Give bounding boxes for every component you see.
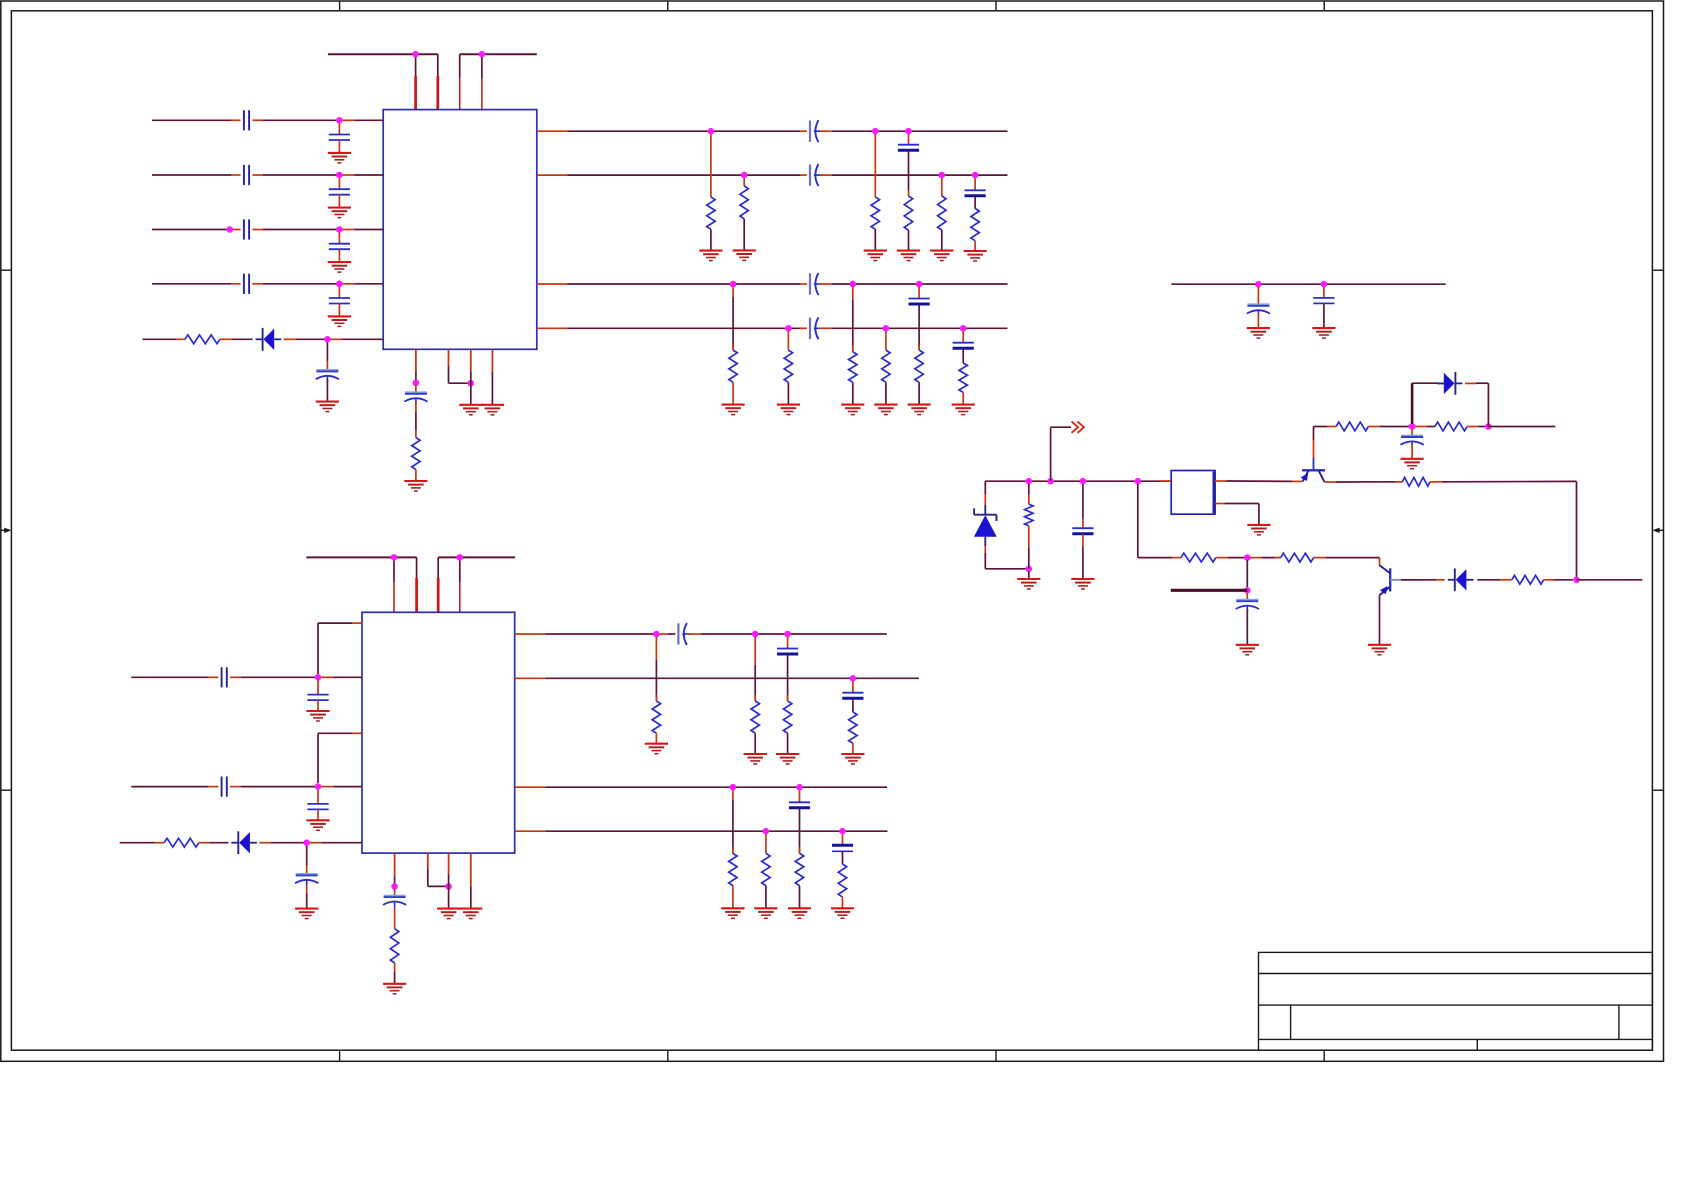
wire rail riser 3: [459, 54, 461, 109]
capacitor C2 (series, row 2): [244, 165, 249, 185]
border centre arrow right: [1652, 528, 1663, 533]
wire U2 feedback L2: [318, 733, 362, 783]
ground chain G: [722, 405, 745, 415]
wire feedback vertical: [1576, 481, 1578, 579]
wire chain Md stub: [852, 681, 854, 692]
wire shunt stub row 3: [338, 233, 340, 244]
junction node F on L2: [972, 172, 979, 179]
junction node C on L1: [872, 128, 879, 135]
ground U2 pin4: [459, 909, 482, 919]
wire chain F to ground: [974, 241, 976, 251]
wire chain J stub: [885, 331, 887, 350]
resistor R27: [1281, 553, 1314, 562]
wire U2 row C left segment: [120, 842, 164, 844]
wire U2 feedback L1: [318, 623, 362, 674]
wire chain K mid: [918, 305, 920, 350]
wire chain B to ground: [743, 219, 745, 251]
ground chain Md: [841, 754, 864, 764]
ground U2 pin3: [437, 909, 460, 919]
ground chain K: [908, 405, 931, 415]
ground C34: [1401, 459, 1424, 469]
junction node dec1: [1255, 281, 1262, 288]
wire chain P2 stub: [765, 834, 767, 853]
capacitor C12 (series on L2): [810, 164, 822, 186]
junction node row 4: [336, 281, 343, 288]
capacitor C21 (shunt, row A): [307, 695, 328, 701]
junction rail2 dot B: [457, 554, 464, 561]
wire R2 to ground: [415, 470, 417, 482]
wire C10 to R2: [415, 402, 417, 438]
capacitor C19 (series, row A): [222, 667, 227, 687]
wire chain F mid: [974, 196, 976, 208]
junction node Mb on M1: [752, 631, 759, 638]
resistor R31: [1512, 575, 1544, 584]
capacitor C18 (chain L): [953, 343, 974, 349]
wire shunt stub row B: [317, 790, 319, 804]
capacitor C24 (polarized): [383, 896, 406, 908]
wire rail2 riser 3: [437, 557, 439, 612]
junction node E on L2: [939, 172, 946, 179]
capacitor C3 (series, row 3): [244, 219, 249, 239]
wire chain L stub: [962, 331, 964, 342]
junction node P1 on M3: [730, 784, 737, 791]
wire chain Ma to ground: [655, 733, 657, 744]
wire net OUT3 (L3): [537, 283, 807, 285]
junction node G on L3: [730, 281, 737, 288]
wire U2 bottom pin 2 jog: [428, 853, 449, 886]
wire U2 row B right segment: [230, 786, 362, 788]
ground chain I: [841, 405, 864, 415]
wire chain D to ground: [908, 230, 910, 250]
wire net OUT3 right part: [820, 283, 1008, 285]
ground U1 pin3: [459, 405, 482, 415]
wire net OUT1 right part: [820, 130, 1008, 132]
wire C23 to ground: [306, 886, 308, 909]
ground row C: [295, 909, 318, 919]
wire chain Md to ground: [852, 743, 854, 754]
diode D1: [256, 328, 282, 351]
junction node I on L3: [850, 281, 857, 288]
wire dec1 to ground: [1257, 314, 1259, 329]
ground chain Ma: [645, 744, 668, 754]
wire D4 to Q2 base: [1401, 579, 1445, 581]
wire net OUT4 (L4): [537, 327, 807, 329]
ground U2 row B: [306, 820, 329, 830]
wire chain P3 mid: [799, 808, 801, 853]
wire row5 cap stub: [326, 342, 328, 370]
offpage connector chevron: [1072, 422, 1085, 433]
capacitor C16 (chain F): [965, 190, 986, 196]
wire Q2 emitter down: [1379, 595, 1381, 645]
ground row 3: [328, 262, 351, 272]
wire chain Mc stub: [787, 637, 789, 649]
wire U1 input row 3 right segment: [252, 229, 383, 231]
wire node to R27: [1250, 557, 1281, 559]
wire lower2 to C33: [1246, 593, 1248, 600]
junction node T1: [1409, 423, 1416, 430]
wire chevron branch: [1051, 427, 1071, 481]
wire chain A crossing: [710, 134, 712, 197]
wire U2 bottom pin 4: [470, 853, 472, 909]
capacitor C14 (series on L4): [810, 317, 822, 339]
wire chain B stub: [743, 178, 745, 186]
wire U1 input row 2 right segment: [252, 174, 383, 176]
wire chain C stub: [874, 134, 876, 197]
wire U3 output: [1215, 480, 1303, 482]
wire U1 bottom pin 1: [415, 349, 417, 383]
capacitor C27 (chain Md): [842, 693, 863, 699]
wire T1 riser thick: [1411, 383, 1414, 424]
wire C9 to ground: [326, 379, 328, 401]
diode D2: [231, 831, 257, 854]
resistor R15 (row C): [164, 838, 199, 847]
wire U1 bottom pin 2 jog: [449, 349, 471, 383]
junction node bus chevron: [1047, 478, 1054, 485]
junction node U2 row B: [315, 783, 322, 790]
resistor R18 (chain Mb): [751, 701, 759, 733]
junction node H on L4: [785, 325, 792, 332]
wire chain H to ground: [787, 382, 789, 404]
wire dec1 stub: [1257, 287, 1259, 304]
resistor R22 (chain P2): [762, 853, 770, 885]
wire rail riser 1: [415, 54, 417, 109]
junction node U2 bottom: [445, 883, 452, 890]
capacitor C5 (shunt, row 1): [329, 135, 350, 141]
wire R28 to corner: [1430, 480, 1576, 482]
ground chain F: [964, 251, 987, 261]
junction node row 5: [324, 336, 331, 343]
IC U2: [362, 612, 515, 853]
wire R26 to node: [1216, 557, 1247, 559]
wire chain P3 stub: [799, 790, 801, 802]
capacitor C4 (series, row 4): [244, 274, 249, 294]
wire net OUT2 (L2): [537, 174, 807, 176]
capacitor C15 (chain D): [898, 145, 919, 151]
capacitor C8 (shunt, row 4): [329, 298, 350, 304]
wire loop right: [1465, 383, 1488, 426]
wire to ground row 3: [338, 249, 340, 262]
ground chain H: [777, 405, 800, 415]
wire lower1 down: [1246, 560, 1248, 590]
junction node U2 row A: [315, 674, 322, 681]
wire U1 input row 4 left segment: [152, 283, 241, 285]
power rail net VCC2 left piece: [306, 556, 416, 558]
ground dec2: [1312, 328, 1335, 338]
wire net BOUT2 (M2): [515, 677, 919, 679]
junction rail dot B: [479, 51, 486, 58]
wire row A to ground: [317, 700, 319, 711]
resistor R26 (lower): [1181, 553, 1216, 562]
wire chain P4 stub: [842, 834, 844, 845]
wire R25 stub: [1028, 484, 1030, 504]
wire FB left to R31: [1544, 579, 1573, 581]
capacitor C26 (chain Mc): [777, 649, 798, 655]
junction node T2: [1485, 423, 1492, 430]
wire net OUT4 right part: [820, 327, 1008, 329]
ground chain P2: [754, 908, 777, 918]
ground chain D: [897, 251, 920, 261]
wire shunt stub row 2: [338, 178, 340, 189]
resistor R24 (chain P4): [838, 864, 846, 897]
wire chain D mid: [908, 151, 910, 196]
wire to ground row 4: [338, 304, 340, 317]
wire U1 bottom pin 3: [470, 349, 472, 405]
junction node dec2: [1321, 281, 1328, 288]
resistor R30: [1435, 422, 1467, 431]
junction rail dot A: [412, 51, 419, 58]
junction node B on L2: [741, 172, 748, 179]
capacitor C22 (shunt, row B): [307, 804, 328, 810]
wire R30 to node T2: [1467, 426, 1488, 428]
capacitor C17 (chain K): [909, 299, 930, 305]
junction node Ma on M1: [653, 631, 660, 638]
resistor R23 (chain P3): [795, 853, 803, 885]
junction node lower2: [1244, 587, 1251, 594]
ground U1 bottom chain: [404, 481, 427, 491]
wire chain P4 mid: [842, 851, 844, 864]
diode D3: [1437, 372, 1463, 395]
wire chain Mb to ground: [754, 733, 756, 754]
junction node K on L3: [916, 281, 923, 288]
wire zener anode down: [985, 546, 1029, 569]
wire chain I to ground: [852, 382, 854, 404]
ground chain B: [733, 250, 756, 260]
ground chain P1: [721, 908, 744, 918]
wire U2 row A right segment: [230, 676, 362, 678]
junction node FB: [1573, 577, 1580, 584]
wire rail2 riser 4: [459, 557, 461, 612]
wire U2 row A left segment: [131, 676, 218, 678]
IC U1: [383, 110, 537, 350]
wire chain A to ground: [710, 229, 712, 250]
wire U1 input row 1 right segment: [252, 119, 383, 121]
wire dec2 to ground: [1323, 304, 1325, 328]
wire net VDD decoupling: [1171, 283, 1445, 285]
wire shunt stub row 1: [338, 123, 340, 134]
junction node bus reg: [1135, 478, 1142, 485]
wire thick stub net: [1171, 589, 1248, 592]
resistor R11 (chain I): [849, 352, 857, 382]
wire chain Mb stub: [754, 637, 756, 701]
wire U1 input row 4 right segment: [252, 283, 383, 285]
wire rail riser 2: [437, 54, 439, 109]
wire U1 input row 3 left segment: [152, 229, 241, 231]
ground chain E: [930, 251, 953, 261]
wire net BOUT4 (M4): [515, 830, 888, 832]
wire to ground row 1: [338, 140, 340, 153]
ground U1 pin4: [481, 405, 504, 415]
wire C32 to ground: [1082, 534, 1084, 579]
wire chain Mc mid: [787, 655, 789, 701]
ground chain L: [952, 405, 975, 415]
voltage regulator U3: [1171, 471, 1215, 515]
wire chain Md mid: [852, 699, 854, 712]
wire D2 to U2: [259, 842, 362, 844]
ground row 4: [328, 316, 351, 326]
junction node Md on M2: [850, 675, 857, 682]
wire chain D stub: [908, 134, 910, 145]
wire chain P4 to ground: [842, 897, 844, 908]
wire R29 to node T1: [1368, 426, 1412, 428]
junction node row 1: [336, 117, 343, 124]
resistor R19 (chain Mc): [783, 701, 791, 733]
wire net OUT2 right part: [820, 174, 1008, 176]
transistor Q1: [1301, 458, 1325, 482]
junction node P2 on M4: [763, 828, 770, 835]
ground chain P4: [831, 908, 854, 918]
wire net BOUT1 right part: [688, 633, 887, 635]
resistor R6 (chain D): [904, 196, 912, 230]
capacitor C13 (series on L3): [810, 273, 822, 295]
ground U3: [1247, 525, 1270, 535]
wire T1 to R30: [1415, 426, 1435, 428]
junction node U1 pin1: [413, 380, 420, 387]
wire U1 input row 2 left segment: [152, 174, 241, 176]
resistor R16 (vertical): [390, 929, 398, 963]
resistor R17 (chain Ma): [652, 701, 660, 733]
wire chain H stub: [787, 331, 789, 350]
wire chain G stub: [732, 287, 734, 350]
ground chain Mc: [776, 754, 799, 764]
wire chain L to ground: [962, 392, 964, 404]
wire shunt stub row A: [317, 680, 319, 694]
diode D4: [1448, 568, 1474, 591]
wire base line (y=426.5): [1314, 426, 1337, 428]
resistor R25: [1025, 504, 1033, 526]
wire chain I stub: [852, 287, 854, 352]
power rail net VCC2 right piece: [438, 556, 515, 558]
wire R31 to D4: [1477, 579, 1512, 581]
capacitor C31: [1313, 298, 1334, 304]
ground Q2: [1368, 645, 1391, 655]
wire chain P3 to ground: [799, 886, 801, 909]
junction node J on L4: [883, 325, 890, 332]
junction node D on L1: [905, 128, 912, 135]
wire to C10: [415, 385, 417, 392]
wire D1 to U1: [284, 338, 384, 340]
wire Q1 collector right: [1325, 481, 1403, 483]
junction node U2 pin1: [391, 883, 398, 890]
junction node U2 row C: [303, 839, 310, 846]
ground chain Mb: [744, 754, 767, 764]
wire FB right stub: [1577, 579, 1643, 581]
wire chain E to ground: [941, 230, 943, 251]
resistor R7 (chain E): [938, 196, 946, 230]
wire chain J to ground: [885, 382, 887, 404]
wire T2 stub right: [1488, 426, 1555, 428]
transistor Q2: [1380, 565, 1401, 595]
wire Q1 base up: [1313, 427, 1315, 459]
wire row B to ground: [317, 809, 319, 820]
capacitor C32: [1072, 528, 1093, 534]
junction node bus R25: [1026, 478, 1033, 485]
border centre arrow left: [1, 528, 12, 533]
ground chain C: [864, 251, 887, 261]
junction node P4 on M4: [839, 828, 846, 835]
zener diode DZ1: [974, 508, 997, 546]
junction node U1 bottom: [468, 380, 475, 387]
wire C24 to R16: [394, 908, 396, 929]
junction node lower1: [1244, 554, 1251, 561]
wire T1 cap stub: [1411, 429, 1413, 435]
junction node L on L4: [960, 325, 967, 332]
ground chain P3: [788, 908, 811, 918]
resistor R20 (chain Md): [849, 712, 857, 743]
capacitor C1 (series, row 1): [244, 110, 249, 130]
wire chain G to ground: [732, 382, 734, 404]
wire net BOUT3 (M3): [515, 786, 887, 788]
wire rail2 riser 1: [393, 557, 395, 612]
wire chain P1 stub: [732, 790, 734, 853]
wire chain Ma stub: [655, 637, 657, 701]
wire to C24: [394, 889, 396, 896]
resistor R28: [1402, 477, 1430, 486]
wire net OUT1 (L1): [537, 130, 807, 132]
capacitor C28 (chain P3): [789, 802, 810, 808]
wire U3 ground pin: [1215, 504, 1259, 525]
resistor R10 (chain H): [784, 350, 792, 382]
capacitor C20 (series, row B): [222, 777, 227, 797]
wire U3 input stub: [1159, 480, 1171, 482]
wire R25 down: [1028, 526, 1030, 569]
capacitor C23 (polarized, row C): [295, 874, 318, 886]
wire R15 to D2: [199, 842, 228, 844]
resistor R2 (vertical): [412, 438, 420, 470]
resistor R13 (chain K): [915, 350, 923, 382]
wire row C cap stub: [306, 846, 308, 874]
junction node row 3 stub dot: [227, 226, 234, 233]
ground U2 row A: [306, 711, 329, 721]
ground chain A: [699, 251, 722, 261]
resistor R12 (chain J): [882, 350, 890, 382]
ground U2 bottom chain: [383, 984, 406, 994]
resistor R4 (chain B): [740, 186, 748, 219]
ground dec1: [1247, 328, 1270, 338]
wire C32 stub: [1082, 484, 1084, 528]
power rail net VCC1 right piece: [460, 53, 537, 55]
wire U1 bottom pin 4: [491, 349, 493, 405]
resistor R3 (chain A): [707, 197, 715, 229]
wire row 5 left segment: [143, 338, 185, 340]
wire C33 to ground: [1246, 609, 1248, 645]
wire rail2 riser 2: [416, 557, 418, 612]
wire chain L mid: [962, 349, 964, 363]
capacitor C11 (series on L1): [810, 120, 822, 142]
resistor R21 (chain P1): [729, 853, 737, 885]
wire chain E stub: [941, 178, 943, 196]
resistor R1 (row 5): [185, 335, 220, 344]
capacitor C29 (chain P4): [832, 845, 853, 851]
wire to ground row 2: [338, 195, 340, 208]
ground row 5: [316, 402, 339, 412]
wire R27 to Q2 collector: [1314, 558, 1380, 566]
ground row 2: [328, 208, 351, 218]
junction node Mc on M1: [784, 631, 791, 638]
resistor R5 (chain C): [871, 197, 879, 229]
resistor R14 (chain L): [959, 363, 967, 392]
wire U2 bottom pin 1: [394, 853, 396, 886]
wire rail riser 4: [481, 54, 483, 109]
junction node P3 on M3: [796, 784, 803, 791]
capacitor C34 (polarized): [1401, 435, 1424, 447]
wire net VIN bus: [985, 480, 1171, 482]
wire U2 row B left segment: [131, 786, 218, 788]
resistor R9 (chain G): [729, 350, 737, 382]
junction node zener-res: [1026, 566, 1033, 573]
ground row 1: [328, 153, 351, 163]
capacitor C25 (series on M1): [678, 623, 690, 645]
capacitor C10 (polarized): [404, 392, 427, 404]
